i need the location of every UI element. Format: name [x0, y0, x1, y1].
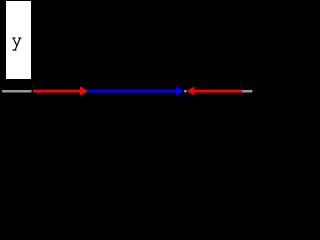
blue segment shaft — [88, 90, 176, 93]
blue arrow head — [176, 86, 184, 95]
red arrow left head — [80, 86, 88, 95]
label box — [6, 1, 31, 79]
wire diagram svg — [0, 0, 273, 150]
red arrow right head — [187, 86, 195, 95]
gray segment left — [2, 90, 32, 93]
red arrow right shaft — [194, 90, 242, 93]
red arrow left shaft — [33, 90, 81, 93]
gray segment right — [242, 90, 252, 93]
gray speck center — [184, 90, 186, 92]
axis label y — [12, 38, 21, 50]
